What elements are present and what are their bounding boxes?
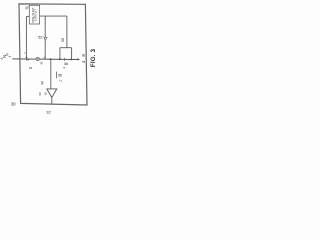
svg-text:44: 44 (40, 81, 44, 85)
svg-text:52: 52 (38, 35, 43, 40)
tiny mark near label 58 (58, 79, 61, 82)
label 62 (left of triangle apex, rotated) (43, 92, 47, 96)
input lead dash (9, 55, 11, 57)
contact bridge 58: right leg (71, 48, 73, 60)
svg-text:32: 32 (46, 110, 51, 115)
svg-text:48: 48 (81, 50, 86, 63)
output arrowhead 48 (77, 58, 80, 61)
contact bridge 58: left leg (59, 48, 61, 60)
svg-text:60: 60 (38, 92, 42, 96)
wire: triangle apex stub to bottom rail (51, 98, 53, 105)
junction dot B (59, 58, 61, 60)
wire: main input line (node 40 to output arrow) (12, 58, 77, 61)
one-shot circuit block U1 text "ONE SHOT CIRCUIT" (rotated) (31, 7, 38, 23)
triangle device 60 (open triangle SCR/amplifier) (47, 89, 57, 98)
label 48 (output ref numeral, rotated) (81, 50, 86, 63)
wire: one-shot left lead vertical down to input line (25, 16, 27, 57)
caption FIG. 3 (rotated) (90, 48, 97, 67)
label 50 (ref numeral for one-shot block) (25, 6, 29, 10)
tiny mark 2 near label 58 (60, 80, 63, 83)
tick below arrow junction (26, 59, 27, 62)
contact bridge 58: top bar (60, 47, 72, 49)
contact terminal (circle with dot) on input line (36, 57, 39, 60)
leader line from label 50 to box corner (27, 6, 29, 9)
one-shot circuit block U1 (box) (29, 5, 39, 24)
wire: lead down to contact bridge 58 (66, 16, 68, 48)
tick 2 below arrow junction (28, 59, 29, 62)
svg-text:62: 62 (43, 92, 47, 96)
arrowhead at bottom of left lead onto input wire (25, 57, 27, 59)
label 44 (mid space, rotated) (40, 81, 44, 85)
input node label: N glyph (2, 55, 7, 58)
svg-text:56: 56 (61, 38, 65, 42)
input node label 40 group: digit 4 (0, 58, 4, 60)
junction dot A (50, 58, 52, 60)
svg-text:FIG. 3: FIG. 3 (90, 48, 97, 67)
leader line for label 58 (55, 72, 57, 79)
enclosure box 30 (outer dashed-solid border of circuit) (19, 4, 87, 105)
label 56 (lead ref numeral) (61, 38, 65, 42)
label 60 (near bottom, rotated) (38, 92, 42, 96)
junction dot C (71, 59, 73, 61)
wire: one-shot left lead horizontal (26, 15, 29, 17)
svg-text:58: 58 (58, 73, 62, 77)
svg-text:54: 54 (29, 66, 33, 70)
wire: one-shot right lead horizontal to node (40, 15, 67, 17)
wire: diode branch vertical (44, 16, 46, 59)
stray dash mark left of lead (24, 52, 26, 54)
stub below input line at node 46 (64, 58, 66, 61)
input node label: degree ring (6, 54, 8, 56)
svg-text:42: 42 (39, 61, 43, 65)
tiny dot above label 58 (64, 67, 65, 68)
wire: branch down to triangle device 60 (50, 59, 52, 89)
svg-text:30: 30 (11, 101, 16, 106)
svg-text:CIRCUIT: CIRCUIT (34, 9, 38, 21)
svg-text:46: 46 (64, 61, 69, 66)
diode D1 (open triangle) (44, 37, 47, 40)
arrow barb at bottom of diode branch (44, 57, 46, 59)
label 42 (below contact terminal, rotated) (39, 61, 43, 65)
contact terminal center dot (37, 58, 38, 59)
